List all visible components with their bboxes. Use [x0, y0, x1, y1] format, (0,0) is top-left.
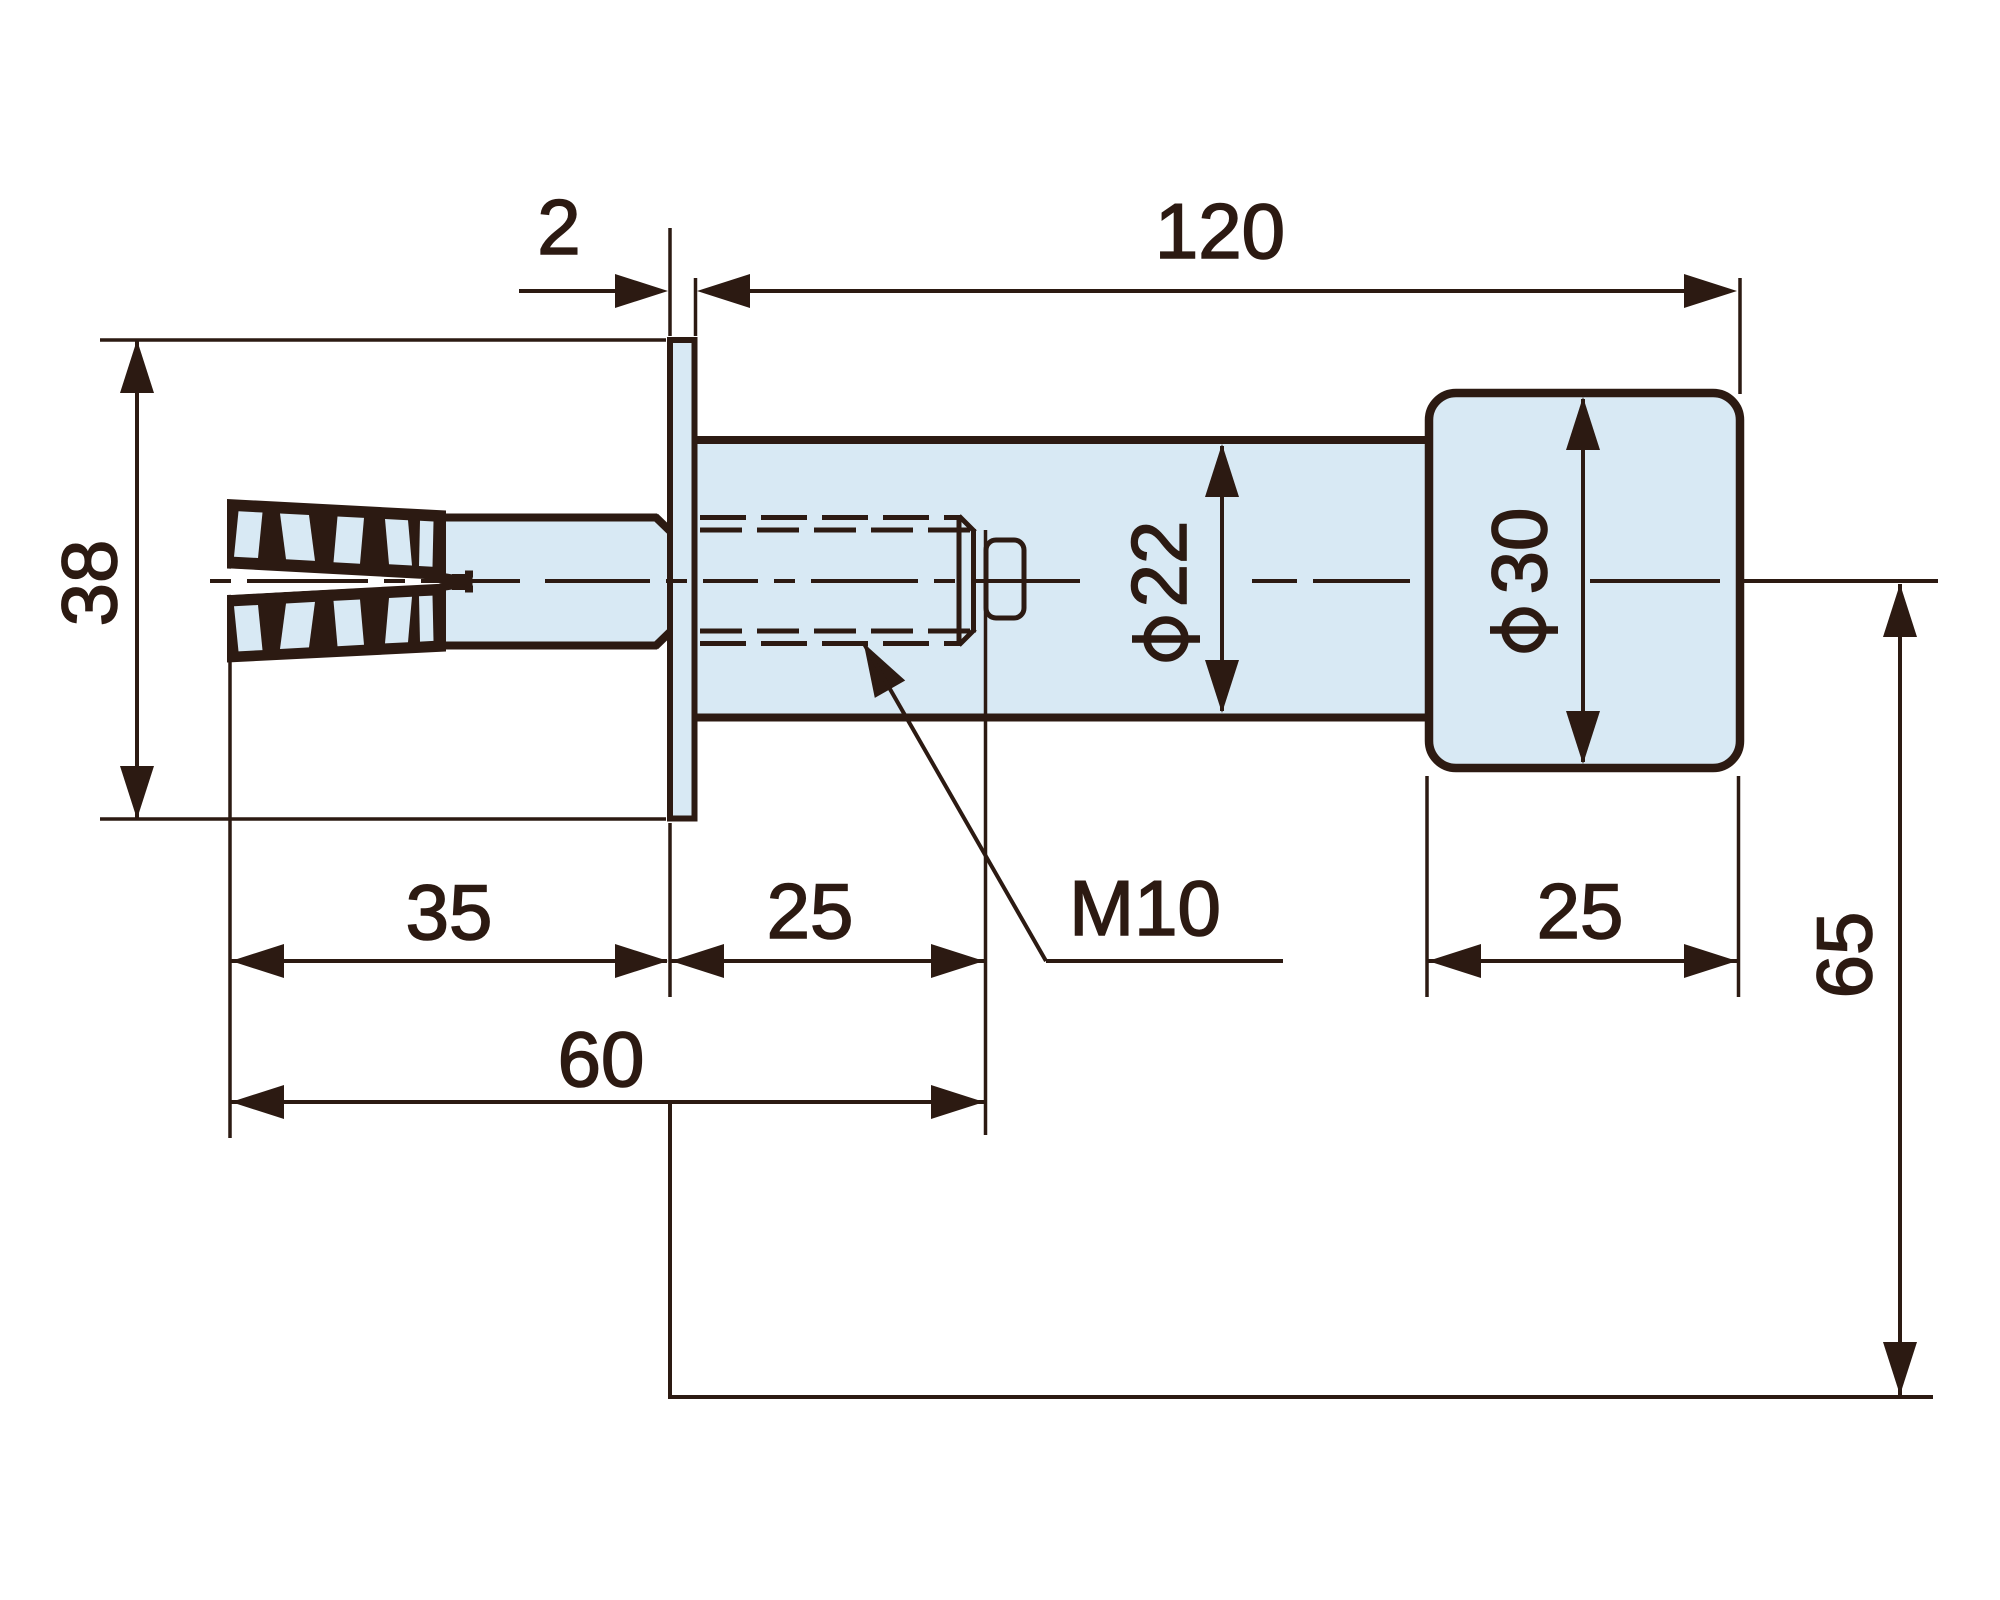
dim 120: right-pointing arrow — [1684, 274, 1737, 308]
bolt head right face — [971, 529, 976, 633]
dim 65: dimension line — [1898, 584, 1902, 1395]
dim 35: left arrow — [231, 944, 284, 978]
dim 2: extension line right — [694, 278, 698, 336]
dim 35: right arrow — [615, 944, 668, 978]
dim 25 left: dimension line — [671, 959, 984, 963]
dim 60: dimension line — [231, 1100, 984, 1104]
dim phi30: phi symbol stem — [1490, 626, 1558, 634]
dim 65: connector line below 60 — [668, 1102, 672, 1397]
hidden thread minor top — [700, 528, 972, 533]
anchor bottom jaw cell 5 — [419, 596, 434, 642]
anchor slit bottom edge converging to apex — [440, 585, 458, 588]
svg-text:30: 30 — [1475, 508, 1563, 595]
dim 2: right-pointing arrow — [615, 274, 668, 308]
dim 25 right: extension line left — [1425, 776, 1429, 997]
anchor bottom jaw cell 1 — [234, 605, 263, 651]
dim 25 right: dimension line — [1428, 959, 1737, 963]
anchor top jaw cell 3 — [334, 517, 365, 564]
leader M10: arrow — [864, 643, 906, 698]
dim phi22: down arrow — [1205, 660, 1239, 713]
anchor neck bottom chamfer — [655, 632, 670, 647]
dim 60: left arrow — [231, 1085, 284, 1119]
anchor bottom jaw body — [227, 584, 446, 663]
dim 25 left: left arrow — [671, 944, 724, 978]
dim 120: left-pointing arrow — [697, 274, 750, 308]
anchor neck top chamfer — [655, 517, 670, 532]
extension line x230 — [228, 656, 232, 1138]
extension line x670 below flange — [668, 823, 672, 997]
dim 38: up arrow — [120, 340, 154, 393]
dim phi30: up arrow — [1566, 397, 1600, 450]
knob — [1429, 393, 1740, 768]
leader M10: diagonal line — [864, 643, 1046, 961]
anchor slit apex tab bottom — [465, 586, 473, 593]
anchor top jaw cell 2 — [280, 514, 315, 561]
anchor neck fill — [442, 514, 670, 650]
anchor bottom jaw cell 2 — [280, 602, 315, 649]
dim phi30: down arrow — [1566, 711, 1600, 764]
svg-text:25: 25 — [1537, 867, 1624, 955]
anchor shoulder tick bottom — [438, 644, 445, 651]
svg-text:38: 38 — [45, 540, 133, 627]
dim phi22: dimension line — [1220, 446, 1224, 711]
anchor top jaw cell 4 — [385, 519, 412, 566]
dim 120: extension line right — [1738, 278, 1742, 394]
anchor top jaw cell 5 — [419, 521, 434, 567]
dim 120: dimension line — [750, 289, 1684, 293]
anchor shoulder tick top — [438, 512, 445, 519]
dim 60: right arrow — [931, 1085, 984, 1119]
anchor slit (white wedge) — [231, 569, 462, 596]
dim 38: extension line top — [100, 338, 666, 342]
shaft cylinder fill — [695, 444, 1432, 714]
dim 35: dimension line — [231, 959, 667, 963]
dim 25 right: right arrow — [1684, 944, 1737, 978]
dim 25 right: left arrow — [1428, 944, 1481, 978]
shaft cylinder top outline — [695, 436, 1432, 444]
svg-text:22: 22 — [1115, 521, 1203, 608]
dim 25 left: right arrow — [931, 944, 984, 978]
bolt protruding tip — [986, 540, 1024, 618]
dim phi30: phi symbol circle — [1505, 611, 1543, 649]
dim 2: dimension line left part — [519, 289, 616, 293]
dim 38: extension line bottom — [100, 817, 666, 821]
svg-text:35: 35 — [406, 868, 493, 956]
centerline — [210, 579, 1938, 583]
anchor slit apex mass — [452, 574, 473, 590]
svg-text:65: 65 — [1800, 912, 1888, 999]
svg-text:120: 120 — [1155, 187, 1285, 275]
anchor top jaw body — [227, 499, 446, 582]
dim phi22: phi symbol stem — [1132, 635, 1200, 643]
svg-text:60: 60 — [558, 1015, 645, 1103]
anchor neck top edge — [440, 514, 657, 522]
dim 25 right: extension line right — [1737, 776, 1741, 997]
anchor neck bottom edge — [440, 642, 657, 650]
flange plate — [670, 340, 695, 819]
dim phi30: dimension line — [1581, 399, 1585, 762]
dim 38: dimension line — [135, 340, 139, 819]
svg-text:2: 2 — [537, 183, 580, 271]
dim phi22: up arrow — [1205, 444, 1239, 497]
bolt head chamfer top — [959, 516, 975, 532]
hidden thread major top — [700, 515, 958, 520]
svg-text:25: 25 — [767, 867, 854, 955]
anchor bottom jaw cell 3 — [334, 600, 365, 647]
hidden thread minor bottom — [700, 629, 972, 634]
leader M10: horizontal line — [1046, 959, 1283, 963]
anchor bottom jaw cell 4 — [385, 597, 412, 644]
extension line x985 — [984, 530, 988, 1135]
bolt head chamfer bottom — [959, 629, 975, 645]
anchor top jaw cell 1 — [234, 511, 263, 558]
dim 2: extension line left — [668, 228, 672, 336]
anchor slit apex tab top — [465, 571, 473, 578]
svg-text:M10: M10 — [1069, 864, 1221, 952]
dim 65: bottom reference line — [668, 1395, 1933, 1399]
dim 38: down arrow — [120, 766, 154, 819]
dim 65: down arrow — [1883, 1342, 1917, 1395]
hidden thread major bottom — [700, 641, 958, 646]
dim phi22: phi symbol circle — [1147, 620, 1185, 658]
anchor slit top edge converging to apex — [440, 577, 458, 580]
dim 65: up arrow — [1883, 584, 1917, 637]
bolt head rear face — [957, 515, 962, 646]
shaft cylinder bottom outline — [695, 714, 1432, 722]
